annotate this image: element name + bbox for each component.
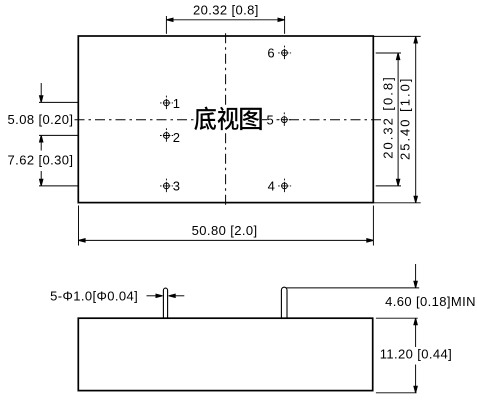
svg-text:1: 1 [173,96,181,111]
svg-text:5-Φ1.0[Φ0.04]: 5-Φ1.0[Φ0.04] [50,288,138,303]
svg-text:25.40 [1.0]: 25.40 [1.0] [398,77,413,160]
svg-text:3: 3 [173,179,181,194]
svg-text:6: 6 [267,46,275,61]
svg-text:5: 5 [267,112,275,127]
svg-text:5.08 [0.20]: 5.08 [0.20] [8,112,74,127]
svg-text:2: 2 [173,130,181,145]
svg-text:50.80 [2.0]: 50.80 [2.0] [192,223,258,238]
svg-text:20.32 [0.8]: 20.32 [0.8] [380,75,395,158]
svg-text:4.60 [0.18]MIN: 4.60 [0.18]MIN [385,294,476,309]
svg-text:11.20 [0.44]: 11.20 [0.44] [380,346,453,361]
svg-text:7.62 [0.30]: 7.62 [0.30] [8,153,74,168]
svg-text:4: 4 [268,179,276,194]
svg-text:20.32 [0.8]: 20.32 [0.8] [193,2,259,17]
